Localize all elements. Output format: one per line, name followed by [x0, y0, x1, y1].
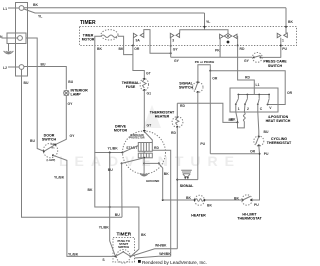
terminal L1: [19, 6, 24, 11]
svg-text:RD: RD: [171, 131, 176, 135]
svg-text:PK: PK: [215, 49, 220, 53]
ground: [8, 44, 10, 52]
svg-text:2: 2: [247, 107, 249, 111]
rendered by: [138, 260, 141, 263]
svg-text:GY: GY: [70, 134, 76, 138]
svg-text:3: 3: [172, 39, 174, 43]
svg-text:RD: RD: [180, 104, 185, 108]
press care switch: [171, 56, 253, 58]
svg-text:GY: GY: [68, 102, 74, 106]
svg-text:BU: BU: [41, 62, 46, 66]
wire RD start to WH/BK riser: [152, 150, 170, 256]
svg-text:YL/BK: YL/BK: [108, 147, 119, 151]
svg-text:GRN: GRN: [51, 144, 56, 146]
svg-text:GY: GY: [173, 47, 179, 51]
svg-text:SIGNAL: SIGNAL: [180, 184, 194, 188]
svg-text:BU: BU: [24, 81, 29, 85]
cycling thermostat: [254, 136, 264, 146]
wire door switch to yl/bk down: [53, 155, 116, 256]
heater: [163, 199, 195, 201]
wh/bk wires: [131, 249, 178, 257]
svg-text:MOTOR: MOTOR: [114, 129, 128, 133]
buzzer signal: [181, 170, 192, 173]
svg-text:SWITCH: SWITCH: [179, 86, 194, 90]
svg-text:HEATER: HEATER: [155, 115, 170, 119]
wire YL from L1: [24, 9, 205, 13]
start winding: [138, 143, 152, 152]
svg-text:PK or PK/WH: PK or PK/WH: [195, 60, 215, 64]
svg-text:SWITCH: SWITCH: [268, 64, 283, 68]
svg-text:HEAT SWITCH: HEAT SWITCH: [266, 119, 291, 123]
node OR: [132, 45, 134, 47]
svg-text:SWITCH: SWITCH: [118, 245, 129, 249]
svg-text:NC: NC: [52, 147, 56, 149]
wire BK motor to heater: [159, 163, 163, 200]
wire BU from L2 down: [22, 70, 123, 218]
svg-text:BK: BK: [164, 172, 169, 176]
svg-text:BU: BU: [264, 130, 269, 134]
watermark logo glyph: [143, 105, 161, 128]
wire BU motor down: [121, 163, 123, 217]
wire signal switch feed: [198, 65, 210, 83]
svg-text:RD: RD: [240, 47, 245, 51]
svg-text:FUSE: FUSE: [126, 85, 136, 89]
svg-text:THERMOSTAT: THERMOSTAT: [267, 141, 292, 145]
svg-text:BU: BU: [115, 213, 120, 217]
svg-text:MOTOR: MOTOR: [82, 38, 95, 42]
hi-limit thermostat: [242, 195, 252, 205]
svg-text:OR: OR: [212, 77, 218, 81]
svg-text:BU: BU: [30, 139, 35, 143]
svg-text:G1: G1: [147, 92, 152, 96]
svg-text:TIMER: TIMER: [80, 20, 96, 26]
svg-text:BK: BK: [88, 188, 93, 192]
svg-text:1: 1: [238, 107, 240, 111]
svg-text:HEATER: HEATER: [191, 214, 206, 218]
svg-text:RD: RD: [154, 146, 159, 150]
svg-text:OR: OR: [134, 47, 140, 51]
lower contacts: [143, 157, 145, 159]
svg-text:GY: GY: [174, 59, 180, 63]
wire lamp to door switch: [55, 96, 66, 145]
wire BK timer-motor right drop: [124, 46, 133, 55]
svg-text:THERMOSTAT: THERMOSTAT: [237, 217, 262, 221]
main winding: [138, 153, 152, 158]
timer contact 9A: [133, 33, 137, 37]
thermal fuse: [140, 79, 148, 91]
svg-text:YL/BK: YL/BK: [54, 176, 65, 180]
coil heat sw 2: [238, 104, 246, 128]
svg-text:PU: PU: [200, 142, 205, 146]
svg-text:OR: OR: [250, 150, 256, 154]
wire fuse to motor: [143, 90, 145, 132]
timer contact 1: [277, 33, 281, 37]
wire BK timer-motor left drop: [95, 46, 123, 153]
svg-text:YL/BK: YL/BK: [99, 226, 110, 230]
svg-text:BK: BK: [186, 196, 191, 200]
svg-text:PU: PU: [254, 203, 259, 207]
wire YL/BK branch to S: [109, 152, 111, 154]
svg-text:OR: OR: [287, 91, 293, 95]
svg-text:LEADVENTURE: LEADVENTURE: [59, 153, 241, 169]
svg-text:WH/BK: WH/BK: [159, 252, 171, 256]
wire N to down bus: [26, 38, 44, 151]
svg-text:L2: L2: [3, 66, 7, 70]
svg-text:PU: PU: [282, 47, 287, 51]
timer contact 3: [170, 33, 174, 37]
wire RD to heat switch L1: [238, 46, 255, 95]
svg-text:L1: L1: [3, 7, 7, 11]
timer contact 4: [220, 34, 224, 38]
svg-text:1: 1: [282, 39, 284, 43]
svg-text:Rendered by LeadVenture, Inc.: Rendered by LeadVenture, Inc.: [142, 260, 207, 265]
svg-text:YL/BK: YL/BK: [68, 252, 79, 256]
svg-text:WH/BK: WH/BK: [155, 244, 167, 248]
4-position heat switch: [230, 88, 278, 112]
svg-text:L1: L1: [256, 83, 260, 87]
wire BK to M drop: [95, 153, 139, 257]
wire YL/BK into motor: [122, 152, 124, 154]
motor ground: [143, 163, 145, 173]
wire OR vertical: [209, 70, 211, 72]
svg-text:BK: BK: [97, 47, 102, 51]
svg-text:(LAMP): (LAMP): [47, 159, 56, 162]
svg-text:BK: BK: [231, 118, 236, 122]
svg-text:GY: GY: [244, 59, 250, 63]
svg-text:PROTECTOR: PROTECTOR: [130, 137, 145, 140]
svg-text:BU: BU: [108, 168, 113, 172]
svg-text:SWITCH: SWITCH: [42, 138, 57, 142]
svg-text:TIMER: TIMER: [117, 231, 132, 236]
wire OR to heat sw 1: [177, 103, 237, 122]
wire cycling to hi-limit: [252, 145, 259, 200]
svg-text:BK: BK: [33, 3, 38, 7]
wire YL down to contact 4: [205, 13, 229, 34]
terminal block: [16, 3, 28, 77]
interior lamp: [64, 90, 69, 95]
push to start switch: [117, 249, 131, 263]
svg-text:BK: BK: [207, 204, 212, 208]
svg-text:LAMP: LAMP: [71, 93, 82, 97]
wire BU from L2 right: [24, 67, 66, 90]
wire heat sw 1 down: [236, 104, 238, 122]
wire BK right drop: [285, 8, 287, 34]
wire heat sw C down: [258, 104, 259, 136]
svg-text:GROUND: GROUND: [146, 179, 160, 183]
svg-text:YL: YL: [206, 20, 210, 24]
svg-text:PU: PU: [264, 152, 269, 156]
svg-text:RD: RD: [245, 76, 250, 80]
terminal N: [7, 33, 26, 44]
svg-text:BK: BK: [288, 20, 293, 24]
wire signal switch to buzzer: [197, 92, 199, 180]
wire OR to press V loop: [210, 71, 285, 105]
svg-text:YL: YL: [38, 15, 42, 19]
svg-text:BK: BK: [141, 233, 146, 237]
wire OR to thermal fuse: [133, 46, 144, 80]
svg-text:9A: 9A: [136, 39, 141, 43]
terminal L2: [19, 65, 24, 70]
wire BK L1 top: [24, 7, 286, 9]
svg-text:BU: BU: [68, 80, 73, 84]
